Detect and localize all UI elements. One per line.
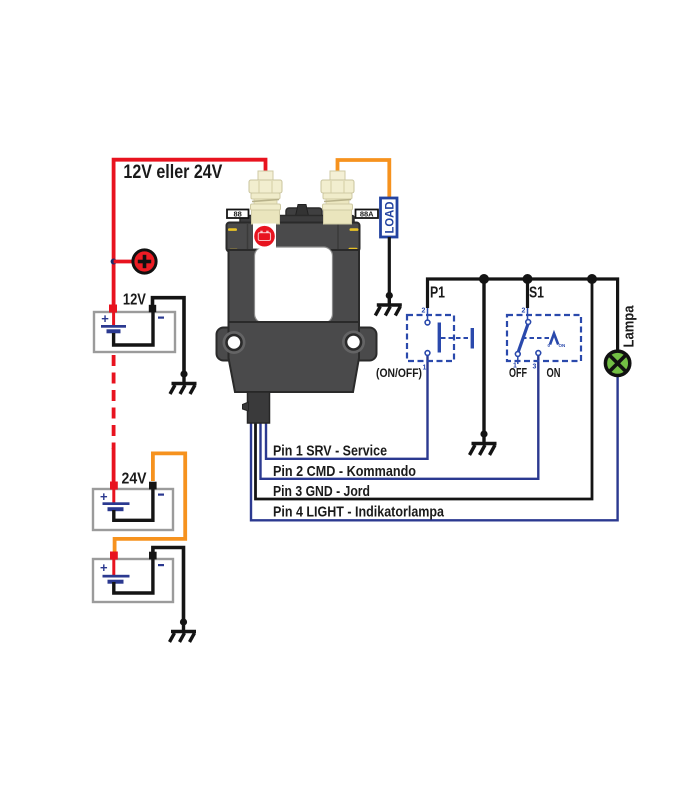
node on red wire: [111, 259, 117, 265]
relay bottom mass: [229, 322, 360, 392]
svg-text:+: +: [100, 489, 108, 504]
wire: rail drop to ground G4: [482, 279, 485, 431]
wire: pin3 GND to rail: [256, 279, 593, 499]
P1 pushbutton contact bar: [438, 323, 441, 353]
wire: LOAD to ground: [388, 237, 391, 293]
S1 lever: [518, 324, 528, 352]
ground G4: [470, 430, 497, 455]
svg-text:S1: S1: [529, 285, 544, 302]
relay top lip: [240, 216, 354, 225]
P1 pin 2 lead: [427, 308, 429, 320]
flange seam left: [247, 223, 249, 251]
wire: pin4 LIGHT to lamp: [251, 374, 618, 520]
S1 enclosure dashed box: [507, 315, 581, 361]
svg-text:2: 2: [422, 308, 426, 315]
battery B3: [93, 552, 173, 603]
pushbutton switch P1: [407, 308, 474, 372]
junction node J1: [479, 274, 489, 284]
svg-text:88A: 88A: [360, 210, 374, 219]
wire: red dashed series link: [112, 355, 116, 449]
ground G3: [375, 292, 402, 316]
P1 actuator dashed link: [441, 337, 471, 339]
svg-text:88: 88: [234, 210, 242, 219]
wire: red stub to plus indicator: [114, 260, 133, 264]
P1 button: [471, 328, 474, 349]
S1 toggle symbol: [550, 334, 558, 345]
relay top flange: [227, 223, 360, 252]
screw mark yellow 4: [349, 248, 358, 251]
junction node J3: [587, 274, 597, 284]
screw mark yellow 1: [228, 228, 237, 231]
relay hump nub: [294, 205, 310, 224]
S1 pin 2 lead: [527, 308, 529, 320]
terminal stud 88A: [321, 171, 354, 224]
relay assembly: [217, 171, 379, 423]
relay hump: [286, 208, 322, 224]
wire: red supply from battery bank to terminal 88: [114, 160, 266, 307]
relay window: [255, 247, 333, 323]
screw mark yellow 3: [229, 249, 238, 252]
wire: rail drop to S1: [526, 279, 529, 308]
LOAD box: [381, 198, 398, 237]
S1 contact ON: [536, 351, 541, 356]
S1 actuator dashed link: [522, 337, 549, 339]
svg-text:24V: 24V: [122, 471, 147, 488]
S1 contact OFF: [515, 352, 520, 357]
P1 contact top: [425, 320, 430, 325]
connector stub: [248, 392, 270, 423]
wire: black B3 negative to ground: [153, 548, 184, 620]
svg-text:ON: ON: [559, 343, 566, 348]
relay ear right: [336, 328, 377, 361]
ground G1: [170, 370, 197, 394]
ear hole left: [223, 331, 246, 354]
terminal stud 88: [249, 171, 282, 224]
wire: pin1 SRV to P1: [266, 355, 428, 459]
ear hole right: [342, 331, 365, 354]
label 88A: [356, 210, 379, 219]
svg-text:LOAD: LOAD: [382, 201, 396, 233]
wire: black B1 negative to ground: [153, 298, 185, 371]
S1 common contact: [526, 320, 531, 325]
svg-text:+: +: [101, 311, 109, 326]
plus indicator circle: [133, 250, 156, 273]
svg-text:+: +: [100, 560, 108, 575]
junction node J2: [523, 274, 533, 284]
toggle switch S1: [507, 308, 581, 371]
wire: orange series link B2 minus to B3 plus: [115, 453, 186, 552]
label 88: [227, 210, 249, 219]
svg-text:1: 1: [423, 365, 427, 372]
svg-text:ON: ON: [547, 366, 561, 380]
svg-text:Pin 4 LIGHT - Indikatorlampa: Pin 4 LIGHT - Indikatorlampa: [273, 504, 445, 521]
svg-text:2: 2: [522, 308, 526, 315]
wire: red solid to B2 plus: [112, 448, 116, 482]
svg-text:P1: P1: [430, 285, 445, 302]
P1 contact bottom: [425, 351, 430, 356]
P1 enclosure dashed box: [407, 315, 454, 361]
relay frame mid: [229, 250, 360, 324]
svg-text:12V: 12V: [123, 291, 146, 308]
lamp: [605, 351, 629, 375]
ground G2: [170, 618, 197, 642]
S1 pin 1 stub: [517, 357, 519, 365]
svg-text:Pin 1 SRV - Service: Pin 1 SRV - Service: [273, 443, 387, 460]
svg-text:(ON/OFF): (ON/OFF): [376, 368, 422, 380]
wire: orange terminal 88A to LOAD: [338, 160, 390, 199]
svg-text:Lampa: Lampa: [622, 305, 638, 348]
red badge: [253, 224, 276, 249]
connector notch: [243, 402, 249, 411]
wire: pin2 CMD to S1 ON: [261, 355, 539, 479]
svg-text:12V eller 24V: 12V eller 24V: [123, 162, 222, 183]
battery B2 24V: [93, 482, 173, 531]
battery B1 12V: [94, 305, 175, 353]
svg-text:OFF: OFF: [509, 366, 527, 380]
svg-text:Pin 2 CMD - Kommando: Pin 2 CMD - Kommando: [273, 463, 416, 480]
screw mark yellow 2: [350, 228, 359, 231]
svg-text:Pin 3 GND - Jord: Pin 3 GND - Jord: [273, 483, 370, 500]
control rail: [428, 279, 618, 352]
flange seam right: [337, 223, 339, 251]
relay ear left: [217, 328, 253, 361]
svg-text:3: 3: [533, 364, 537, 371]
